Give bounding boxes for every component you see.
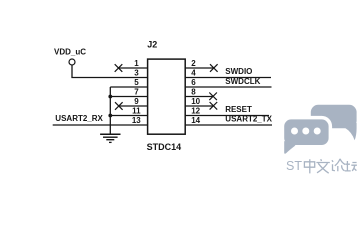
watermark logo: front bubble white halo — [281, 116, 332, 149]
terminal circle VDD_uC — [69, 59, 75, 65]
wire pin 7 to GND bus — [110, 96, 147, 98]
pin 1 stub — [119, 67, 148, 69]
connector J2 body — [148, 59, 186, 134]
svg-text:8: 8 — [191, 88, 196, 97]
svg-text:5: 5 — [134, 78, 139, 87]
wire USART2_TX pin 14 — [185, 124, 272, 126]
svg-text:2: 2 — [191, 59, 196, 68]
front bubble ellipsis dots — [291, 128, 321, 135]
back bubble tail — [346, 123, 357, 140]
svg-text:J2: J2 — [147, 40, 157, 50]
svg-text:11: 11 — [132, 107, 141, 116]
pin 8 stub — [185, 96, 213, 98]
pin 9 stub — [119, 105, 148, 107]
pin 2 stub — [185, 67, 214, 69]
watermark text CJK 论 — [332, 159, 345, 172]
svg-text:1: 1 — [134, 59, 139, 68]
svg-text:RESET: RESET — [225, 105, 252, 114]
svg-text:13: 13 — [132, 116, 141, 125]
wire USART2_RX to pin 13 — [53, 124, 148, 126]
wire SWDIO pin 4 — [185, 77, 271, 79]
junction dot pin 11 — [108, 114, 112, 118]
watermark text CJK 坛 — [345, 161, 357, 171]
no-connect X pin 10 — [210, 102, 218, 110]
wire VDD_uC to pin 3 — [71, 77, 147, 79]
svg-text:ST: ST — [286, 159, 302, 173]
wire pin 11 to GND bus — [110, 115, 147, 117]
wire SWDCLK pin 6 — [185, 86, 271, 88]
svg-text:7: 7 — [134, 88, 139, 97]
svg-text:USART2_RX: USART2_RX — [55, 114, 103, 123]
svg-text:SWDIO: SWDIO — [225, 67, 252, 76]
svg-text:14: 14 — [191, 116, 200, 125]
svg-text:USART2_TX: USART2_TX — [225, 115, 272, 124]
svg-text:3: 3 — [134, 69, 139, 78]
junction dot pin 7 — [108, 95, 112, 99]
wire pin 5 to GND bus — [110, 86, 147, 88]
svg-text:SWDCLK: SWDCLK — [225, 77, 260, 86]
GND bus vertical wire — [109, 87, 111, 134]
watermark text CJK 中 — [304, 159, 357, 174]
svg-text:VDD_uC: VDD_uC — [54, 47, 86, 56]
wire VDD_uC vertical — [71, 65, 73, 77]
svg-text:STDC14: STDC14 — [147, 142, 182, 152]
svg-text:9: 9 — [134, 97, 139, 106]
no-connect X pin 9 — [115, 102, 123, 110]
front bubble tail — [284, 138, 295, 154]
no-connect X pin 8 — [209, 93, 217, 101]
no-connect X pin 2 — [210, 64, 218, 72]
svg-text:6: 6 — [191, 78, 196, 87]
wire RESET pin 12 — [185, 115, 269, 117]
svg-text:12: 12 — [191, 107, 200, 116]
svg-text:10: 10 — [191, 97, 200, 106]
ground symbol — [100, 134, 120, 142]
pin 10 stub — [185, 105, 213, 107]
watermark logo: front chat bubble — [284, 119, 328, 145]
watermark logo: back chat bubble — [311, 105, 357, 140]
svg-text:4: 4 — [191, 69, 196, 78]
watermark text CJK 文 — [316, 159, 329, 173]
no-connect X pin 1 — [115, 64, 123, 72]
